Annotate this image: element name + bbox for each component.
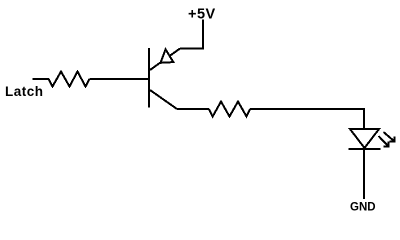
- LED D1: [349, 129, 381, 149]
- wire: [90, 78, 151, 80]
- svg-text:GND: GND: [350, 202, 376, 214]
- wire: [180, 20, 203, 49]
- LED D1 emission arrows: [379, 132, 395, 147]
- transistor Q1 (PNP): [149, 48, 180, 109]
- resistor R1: [49, 72, 90, 87]
- resistor R2: [209, 102, 250, 117]
- svg-text:+5V: +5V: [188, 6, 216, 22]
- wire: [33, 78, 50, 80]
- wire: [250, 109, 364, 129]
- wire: [363, 149, 365, 199]
- wire: [177, 108, 209, 110]
- svg-text:Latch: Latch: [5, 84, 44, 99]
